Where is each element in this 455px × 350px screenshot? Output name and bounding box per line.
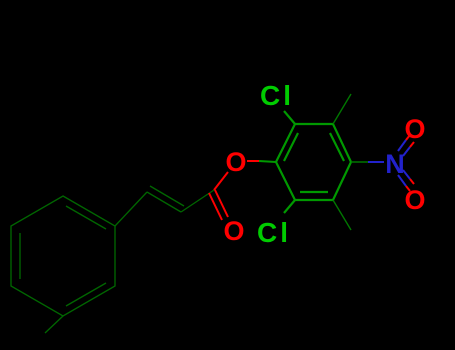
svg-text:O: O — [404, 185, 425, 215]
svg-text:Cl: Cl — [257, 217, 291, 248]
svg-text:O: O — [404, 114, 425, 144]
svg-text:O: O — [225, 147, 246, 177]
svg-text:O: O — [223, 216, 244, 246]
svg-text:Cl: Cl — [260, 80, 294, 111]
svg-text:N: N — [385, 149, 405, 179]
